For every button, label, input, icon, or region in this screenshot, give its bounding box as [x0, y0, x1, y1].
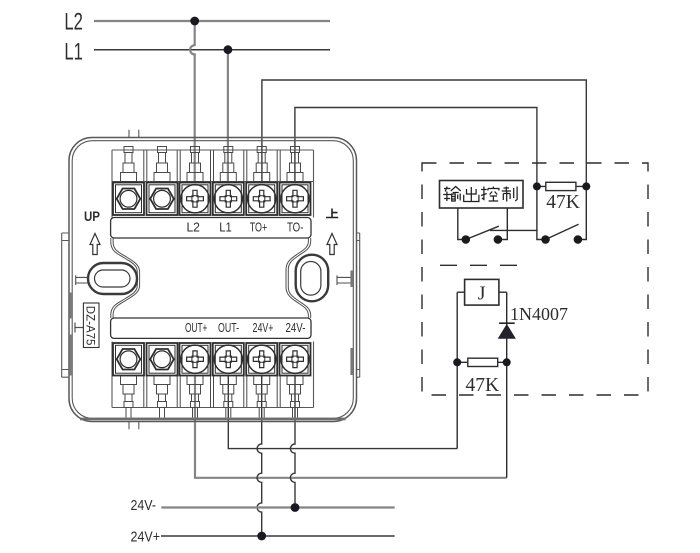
node dot R2 right	[503, 358, 511, 366]
terminal block frame bottom	[112, 342, 314, 408]
terminal cell 6 lower hardware	[287, 376, 303, 385]
switch S1 blade	[466, 226, 499, 239]
wire L1 vertical	[227, 50, 229, 183]
label strip bottom	[111, 318, 311, 338]
svg-text:TO-: TO-	[287, 220, 304, 235]
svg-text:24V-: 24V-	[286, 320, 306, 335]
wire R1 right down to switch S2 right	[582, 190, 586, 240]
terminal cell 4 lower hardware	[220, 376, 236, 385]
left edge pin to slot	[76, 275, 88, 285]
dashed inner divider	[440, 264, 519, 266]
screw terminal hex bottom 1	[113, 343, 144, 376]
wire relay-left branch vertical down from J	[456, 292, 458, 448]
node dot R2 left	[453, 358, 461, 366]
node dot R1 left	[533, 182, 541, 190]
terminal cell 3 lower hardware	[187, 376, 203, 385]
module edge ticks	[129, 130, 139, 429]
node dot R1 right	[582, 182, 590, 190]
junction dot 24V-	[291, 503, 300, 512]
wire TO+ terminal up and right to 47K right side	[262, 80, 586, 183]
terminal cell 5 upper hardware	[258, 153, 265, 164]
wire J right pin	[499, 291, 507, 293]
dashed control enclosure	[422, 163, 648, 395]
上 marking (CJK up)	[326, 209, 338, 218]
svg-text:L1: L1	[64, 39, 83, 66]
wire L2 vertical with hop over L1	[190, 21, 195, 183]
mounting slot right	[296, 255, 329, 302]
wire L1 horizontal	[94, 49, 330, 51]
junction dot 24V+	[257, 532, 266, 541]
wire control box left pin down to S1	[458, 208, 462, 239]
svg-text:OUT-: OUT-	[218, 320, 239, 335]
screw terminal phillips top 6	[280, 183, 311, 216]
moulding curves around slots	[111, 238, 311, 318]
junction dot on L2	[190, 17, 199, 26]
svg-text:DZ-A75: DZ-A75	[84, 306, 96, 346]
module bottom thick strip	[80, 418, 346, 421]
screw terminal hex bottom 2	[147, 343, 178, 376]
svg-text:TO+: TO+	[250, 220, 268, 235]
screw terminal phillips bottom 6	[280, 343, 311, 376]
terminal cell 6 upper hardware	[292, 153, 299, 164]
wire TO- terminal up and right to 47K left side	[295, 108, 537, 184]
switch S2 blade	[546, 224, 579, 239]
screw terminal phillips top 5	[246, 183, 277, 216]
terminal cell 5 lower hardware	[254, 376, 270, 385]
svg-text:24V-: 24V-	[131, 498, 157, 514]
terminal cell dividers top	[144, 150, 280, 182]
terminal cell dividers bottom	[144, 376, 280, 408]
diode D1 1N4007	[499, 322, 515, 324]
terminal cell 2 upper hardware	[159, 153, 166, 164]
svg-text:OUT+: OUT+	[185, 320, 208, 335]
switch S2 left dot	[541, 235, 550, 244]
wire OUT- down then right to relay branch	[228, 370, 457, 449]
screw terminal hex top 1	[113, 183, 144, 216]
box U1 output control (输出控制)	[440, 181, 524, 209]
svg-text:L2: L2	[64, 9, 83, 36]
junction dot on L1	[224, 45, 233, 54]
module outer body	[69, 138, 357, 422]
wire R1 left down to switch S2	[537, 190, 542, 240]
screw terminal phillips top 3	[180, 183, 211, 216]
terminal cell 1 upper hardware	[125, 153, 132, 164]
terminal cell 4 upper hardware	[225, 153, 232, 164]
wire OUT+ gray down then right to diode branch	[195, 370, 507, 478]
screw terminal phillips bottom 5	[246, 343, 277, 376]
terminal cell 3 upper hardware	[192, 153, 199, 164]
wire diode branch vertical down to OUT+ horizontal	[506, 292, 508, 478]
mounting slot left	[88, 263, 137, 294]
relay J box	[465, 279, 499, 305]
switch S2 right dot	[574, 235, 583, 244]
UP arrow right	[327, 234, 337, 255]
wire J left pin	[457, 291, 464, 293]
wire L2 horizontal	[94, 20, 330, 22]
wire 24V+ terminal vertical with hops	[257, 370, 262, 536]
left edge clip bars	[69, 293, 71, 319]
wire control box right pin down to S1 right	[502, 208, 507, 239]
resistor R2 47K bottom	[461, 361, 503, 363]
terminal cell 1 lower hardware	[121, 376, 137, 385]
wire link S1 blade to TO- branch	[490, 229, 537, 231]
screw terminal hex top 2	[147, 183, 178, 216]
svg-text:L1: L1	[219, 220, 232, 235]
right edge pin to slot	[337, 275, 353, 285]
wire 24V- bus line	[161, 506, 394, 508]
switch S1 left dot	[462, 235, 471, 244]
right edge clip bar	[350, 271, 353, 288]
wire 24V- terminal vertical with hops	[290, 370, 295, 508]
screw terminal phillips bottom 3	[180, 343, 211, 376]
svg-text:24V+: 24V+	[131, 529, 161, 545]
resistor R1 47K top	[541, 185, 583, 187]
label strip top	[111, 218, 311, 239]
switch S1 right dot	[494, 235, 503, 244]
svg-text:47K: 47K	[546, 192, 580, 213]
terminal block frame top	[112, 150, 314, 218]
screw terminal phillips bottom 4	[213, 343, 244, 376]
svg-text:47K: 47K	[466, 375, 500, 396]
svg-text:J: J	[478, 282, 486, 304]
svg-text:24V+: 24V+	[253, 320, 274, 335]
terminal cell 2 lower hardware	[154, 376, 170, 385]
UP arrow left	[90, 234, 100, 255]
svg-text:L2: L2	[186, 220, 200, 235]
screw terminal phillips top 4	[213, 183, 244, 216]
wire 24V+ bus line	[161, 535, 395, 537]
svg-text:UP: UP	[84, 209, 100, 224]
DZ-A75 label plate	[75, 323, 83, 333]
svg-text:1N4007: 1N4007	[510, 304, 568, 324]
